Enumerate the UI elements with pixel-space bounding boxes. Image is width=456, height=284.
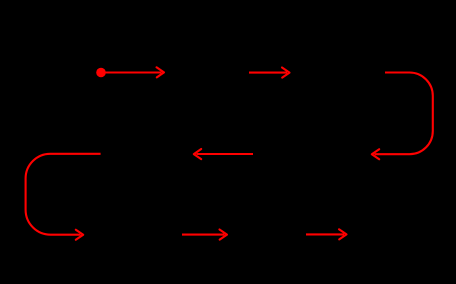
arrow row1 first (dot to right)	[101, 67, 164, 77]
left u-turn (row2 to row3)	[26, 154, 101, 240]
arrow row3 second	[306, 229, 347, 239]
start dot	[96, 68, 106, 78]
arrow row1 second	[249, 68, 290, 78]
arrow row2 leftward	[194, 149, 253, 159]
arrow row3 first	[182, 230, 227, 240]
right u-turn (row1 to row2)	[372, 73, 433, 160]
